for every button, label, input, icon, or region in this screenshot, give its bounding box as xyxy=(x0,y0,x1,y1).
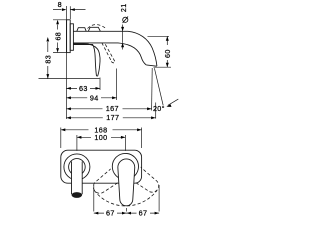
angle 20 deg legs xyxy=(151,68,154,111)
spout front view tube xyxy=(72,162,83,193)
svg-text:94: 94 xyxy=(90,94,99,103)
dimension 83 xyxy=(39,42,100,79)
svg-text:67: 67 xyxy=(106,209,115,218)
svg-text:60: 60 xyxy=(163,49,172,58)
dashed swung handle left xyxy=(89,154,162,198)
bottom extension lines xyxy=(94,185,159,212)
dashed swung handle right xyxy=(114,154,163,197)
dashed swing arc xyxy=(94,190,157,206)
dimension 63 row xyxy=(66,78,100,91)
svg-text:68: 68 xyxy=(53,32,62,41)
front view dimension 168 row xyxy=(61,128,142,149)
handle capsule front xyxy=(118,159,135,206)
svg-text:63: 63 xyxy=(79,84,88,93)
angle leader arrow xyxy=(168,99,179,105)
escutcheon side sliver xyxy=(70,24,73,51)
spout tube side view xyxy=(73,31,156,66)
dimension 94 row xyxy=(66,69,116,101)
spout tip cut xyxy=(146,65,157,66)
wire wall extension line xyxy=(65,6,67,119)
handle flat part bump 1 xyxy=(77,28,86,32)
front view dimension 100 row xyxy=(77,135,126,151)
dimension 177 row xyxy=(66,117,155,119)
dimension 67 right xyxy=(127,212,160,214)
svg-text:100: 100 xyxy=(94,133,107,142)
dimension 177 extension xyxy=(155,103,157,119)
dimension 67 left xyxy=(94,212,127,214)
svg-text:20°: 20° xyxy=(153,104,165,113)
left escutcheon front xyxy=(64,154,90,180)
dimension 68 xyxy=(53,20,66,53)
dimension 60 xyxy=(148,36,172,67)
svg-text:167: 167 xyxy=(106,104,119,113)
svg-text:67: 67 xyxy=(139,209,148,218)
dimension 167 row xyxy=(66,108,151,110)
wall plate front view xyxy=(61,150,142,183)
svg-text:83: 83 xyxy=(44,55,53,64)
dashed swung handle blade xyxy=(111,62,115,63)
svg-text:21: 21 xyxy=(119,3,128,12)
svg-text:8: 8 xyxy=(58,0,62,9)
svg-text:177: 177 xyxy=(106,113,119,122)
dashed raised handle arc xyxy=(88,25,107,29)
right escutcheon front xyxy=(112,153,138,179)
wall plate side view xyxy=(67,20,71,53)
handle blade side view xyxy=(73,44,100,76)
handle flat part bump 2 xyxy=(88,27,100,31)
